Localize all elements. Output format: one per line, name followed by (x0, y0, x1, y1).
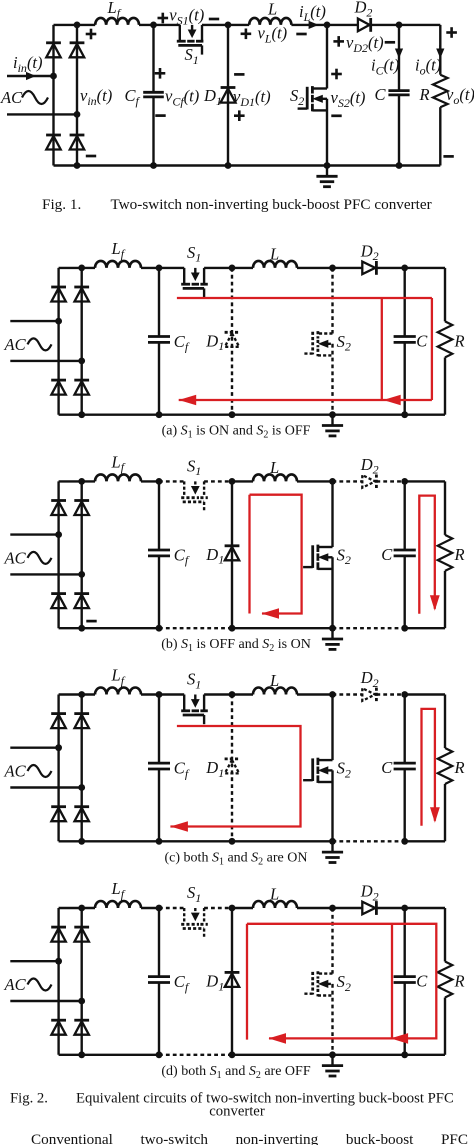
node AC upper (d) (55, 958, 62, 965)
node bridge bottom-right (b) (78, 625, 85, 632)
svg-text:D2​: D2​ (360, 455, 379, 477)
wire S2 branch upper (b) (331, 481, 333, 547)
svg-text:Two-switch non-inverting buck-: Two-switch non-inverting buck-boost PFC … (111, 196, 432, 213)
bridge diode upper-left (b) (51, 499, 66, 502)
svg-text:L: L (267, 0, 277, 19)
svg-text:Fig. 1.: Fig. 1. (42, 196, 81, 213)
wire top rail (d) D2 cathode to C node (376, 907, 404, 909)
node Cf top (150, 22, 157, 29)
node bridge bottom-right (c) (78, 838, 85, 845)
svg-text:R: R (454, 331, 465, 350)
wire S2 branch upper (d) (331, 908, 333, 974)
wire top rail (d) S2 node to D2 anode (333, 907, 363, 909)
bridge diode upper-left (a) (51, 286, 66, 289)
wire top rail (a) L to S2 node (297, 267, 333, 269)
inductor Lf (95, 18, 139, 25)
svg-text:vS2(t): vS2(t) (331, 88, 366, 110)
bridge diode upper-right (c) (74, 712, 89, 715)
transistor S2 (a) (318, 332, 333, 334)
red arrow (d) middle (391, 1033, 409, 1044)
label - vS2 (331, 114, 341, 117)
capacitor Cf (a) (158, 268, 160, 337)
red current path (c) output loop (422, 709, 435, 826)
label + vo (446, 31, 457, 34)
svg-text:AC: AC (4, 762, 27, 781)
bridge diode upper-right (a) (74, 286, 89, 289)
svg-text:iL(t): iL(t) (299, 2, 326, 24)
node S2 top (324, 22, 331, 29)
diode D1 (b) (225, 544, 240, 547)
red current path (a) vertical at C left (381, 298, 383, 400)
svg-text:(a) S1​ is ON and S2​ is OFF: (a) S1​ is ON and S2​ is OFF (162, 424, 311, 441)
svg-text:Lf​: Lf​ (111, 879, 126, 901)
node bridge bottom-right (a) (78, 411, 85, 418)
wire bottom rail (a) Cf node to D1 node (159, 414, 232, 416)
wire bottom rail (c) D1 node to S2 node (232, 840, 333, 842)
svg-text:Cf​: Cf​ (174, 332, 190, 354)
node S2 bottom (d) (329, 1051, 336, 1058)
node D1 top (225, 22, 232, 29)
AC terminal wire upper (d) (10, 960, 58, 962)
node S2 top (b) (329, 478, 336, 485)
wire bridge left leg (c) (57, 695, 59, 842)
label + vCf (155, 72, 166, 75)
wire bottom rail (b) Cf node to D1 node (159, 627, 232, 629)
node bridge top-right (c) (78, 691, 85, 698)
wire D1 branch (c) (231, 695, 233, 842)
svg-text:vD2(t): vD2(t) (346, 33, 384, 55)
label + vL (241, 32, 252, 35)
AC source symbol (d) (28, 979, 52, 991)
capacitor Cf (b) (158, 481, 160, 550)
resistor R (b) (444, 481, 446, 535)
capacitor C (d) (404, 908, 406, 977)
wire bottom rail (c) Cf node to D1 node (159, 840, 232, 842)
node C top (b) (401, 478, 408, 485)
wire top rail (b) C node to R (405, 480, 445, 482)
node bridge top-right (b) (78, 478, 85, 485)
node bridge bottom-right Fig1 (74, 162, 81, 169)
svg-text:Lf​: Lf​ (107, 0, 122, 20)
wire bottom rail (d) D1 node to S2 node (232, 1054, 333, 1056)
wire top rail (d) bridge to Cf (59, 907, 95, 909)
wire top rail (c) D1 node to L (232, 693, 253, 695)
svg-text:Cf​: Cf​ (174, 972, 190, 994)
inductor L (b) (253, 474, 297, 481)
ground (a) (331, 415, 333, 425)
wire top rail (d) Cf to S1 drain (159, 907, 184, 909)
node S2 bottom (c) (329, 838, 336, 845)
svg-text:D2​: D2​ (360, 241, 379, 263)
wire bottom rail (b) C node to R (405, 627, 445, 629)
node input upper (50, 73, 57, 80)
diode D2 (a) (362, 262, 375, 275)
wire bottom rail (a) D1 node to S2 node (232, 414, 333, 416)
svg-text:(c) both S1​ and S2​ are ON: (c) both S1​ and S2​ are ON (165, 850, 308, 867)
transistor S1 (c) (183, 695, 185, 710)
svg-text:io(t): io(t) (415, 56, 441, 78)
wire top rail (b) bridge to Cf (59, 480, 95, 482)
wire top rail (a) D1 node to L (232, 267, 253, 269)
label + vD1 (234, 114, 245, 117)
svg-text:D2​: D2​ (354, 0, 373, 19)
svg-text:S1​: S1​ (187, 456, 201, 478)
svg-text:D2​: D2​ (360, 882, 379, 904)
node D1 top (b) (229, 478, 236, 485)
node bridge top-right (a) (78, 265, 85, 272)
wire top rail (a) Cf to S1 drain (159, 267, 184, 269)
svg-text:(b) S1​ is OFF and S2​ is ON: (b) S1​ is OFF and S2​ is ON (161, 637, 311, 654)
node D1 top (d) (229, 905, 236, 912)
node C top (a) (401, 265, 408, 272)
wire top rail (a) S1 source to D1 node (204, 267, 232, 269)
node S2 bottom (b) (329, 625, 336, 632)
wire bottom rail (b) S2 node to C node (333, 627, 405, 629)
capacitor Cf (d) (158, 908, 160, 977)
label - vD1 (234, 73, 244, 76)
svg-text:R: R (454, 545, 465, 564)
node Cf top (b) (156, 478, 163, 485)
diode D1 (a) (225, 331, 240, 334)
label + vS1 (158, 17, 169, 20)
node D1 bottom (225, 162, 232, 169)
svg-text:R: R (454, 972, 465, 991)
node C bottom (c) (401, 838, 408, 845)
red arrow (a) left (179, 395, 197, 406)
AC terminal wire upper (a) (10, 320, 58, 322)
wire bottom rail (d) C node to R (405, 1054, 445, 1056)
node AC upper (a) (55, 318, 62, 325)
AC terminal wire lower (a) (10, 360, 81, 362)
wire top rail (a) S2 node to D2 anode (333, 267, 363, 269)
svg-text:S1​: S1​ (187, 243, 201, 265)
inductor Lf (b) (95, 474, 141, 481)
bridge diode lower-left (a) (51, 379, 66, 382)
bridge diode upper-right (70, 41, 85, 44)
diode D1 (c) (225, 758, 240, 761)
node AC upper (c) (55, 744, 62, 751)
AC terminal wire lower (b) (10, 573, 81, 575)
svg-text:AC: AC (4, 975, 27, 994)
svg-text:D1​: D1​ (205, 972, 224, 994)
node C top (396, 22, 403, 29)
node Cf bottom (d) (156, 1051, 163, 1058)
wire D1 branch (227, 25, 229, 166)
node S2 top (c) (329, 691, 336, 698)
AC source symbol (22, 91, 48, 104)
wire D1 branch (a) (231, 268, 233, 415)
svg-text:Cf​: Cf​ (174, 545, 190, 567)
wire top rail (b) S2 node to D2 anode (333, 480, 363, 482)
bridge diode lower-right (c) (74, 805, 89, 808)
svg-text:(d) both S1​ and S2​ are OFF: (d) both S1​ and S2​ are OFF (161, 1064, 310, 1081)
wire top rail (a) bridge to Cf (59, 267, 95, 269)
diode D2 (c) (362, 688, 375, 701)
capacitor Cf (152, 25, 154, 92)
node C bottom (b) (401, 625, 408, 632)
svg-text:R: R (454, 758, 465, 777)
svg-text:S1​: S1​ (185, 45, 199, 67)
red arrow (c) main loop (170, 821, 188, 832)
node bridge bottom-right (d) (78, 1051, 85, 1058)
wire top rail (a) D2 cathode to C node (376, 267, 404, 269)
label - vCf (155, 114, 165, 117)
wire bridge left leg Fig1 (52, 25, 54, 166)
svg-text:vCf(t): vCf(t) (165, 87, 199, 109)
wire top rail (c) S2 node to D2 anode (333, 693, 363, 695)
label - vS1 (209, 18, 219, 21)
svg-text:S2​: S2​ (337, 759, 351, 781)
wire bottom rail (a) bridge to Cf node (59, 414, 159, 416)
diode D1 (221, 86, 236, 89)
svg-text:D1​: D1​ (205, 331, 224, 353)
wire bottom rail Fig1 (54, 164, 441, 166)
node Cf top (a) (156, 265, 163, 272)
label + vD2 (333, 40, 344, 43)
node S2 top (d) (329, 905, 336, 912)
svg-text:S2​: S2​ (337, 545, 351, 567)
bridge diode lower-left (c) (51, 805, 66, 808)
red current path (b) output loop (419, 496, 435, 614)
svg-text:Equivalent circuits of two-swi: Equivalent circuits of two-switch non-in… (76, 1091, 454, 1107)
bridge diode lower-left (b) (51, 592, 66, 595)
bridge diode upper-left (c) (51, 712, 66, 715)
red arrow (b) middle loop (262, 608, 280, 619)
wire top rail (c) S1 source to D1 node (204, 693, 232, 695)
label - bridge (86, 155, 96, 158)
node D1 bottom (c) (229, 838, 236, 845)
svg-text:L: L (269, 244, 279, 263)
wire bridge right leg (a) (80, 268, 82, 415)
svg-text:vS1(t): vS1(t) (169, 6, 204, 28)
inductor L (a) (253, 261, 297, 268)
wire bridge right leg (d) (80, 908, 82, 1055)
red current path (d) outer loop (246, 924, 248, 1040)
inductor L (d) (253, 901, 297, 908)
wire top rail (d) S1 source to D1 node (204, 907, 232, 909)
inductor Lf (d) (95, 901, 141, 908)
node Cf bottom (150, 162, 157, 169)
transistor S2 (b) (318, 546, 333, 548)
current arrow iL (309, 21, 319, 29)
transistor S2 (312, 87, 327, 89)
svg-text:D2​: D2​ (360, 668, 379, 690)
red arrow (d) left (269, 1033, 287, 1044)
svg-text:L: L (269, 458, 279, 477)
node AC upper (b) (55, 531, 62, 538)
svg-text:Lf​: Lf​ (111, 452, 126, 474)
wire bottom rail (a) C node to R (405, 414, 445, 416)
diode D2 (b) (362, 475, 375, 488)
node D1 top (a) (229, 265, 236, 272)
wire top rail (a) C node to R (405, 267, 445, 269)
wire bottom rail (b) D1 node to S2 node (232, 627, 333, 629)
wire top rail (c) C node to R (405, 693, 445, 695)
wire top rail (b) L to S2 node (297, 480, 333, 482)
bridge diode lower-right (70, 134, 85, 137)
svg-text:Fig. 2.: Fig. 2. (10, 1091, 48, 1107)
wire top rail (d) D1 node to L (232, 907, 253, 909)
node Cf bottom (a) (156, 411, 163, 418)
node C bottom (396, 162, 403, 169)
AC source terminal wire lower (7, 113, 77, 115)
svg-text:AC: AC (4, 548, 27, 567)
inductor Lf (c) (95, 688, 141, 695)
node bridge top-right Fig1 (74, 22, 81, 29)
resistor R (d) (444, 908, 446, 962)
node AC lower (a) (78, 358, 85, 365)
diode D2 (358, 19, 370, 32)
AC source symbol (b) (28, 552, 52, 564)
svg-text:vL(t): vL(t) (258, 24, 288, 46)
label - vD2 (385, 41, 395, 44)
capacitor C (398, 25, 400, 91)
diode D1 (d) (225, 971, 240, 974)
wire bridge right leg (b) (80, 481, 82, 628)
wire S2 branch upper (c) (331, 695, 333, 761)
svg-text:vD1(t): vD1(t) (233, 87, 271, 109)
wire bottom rail (d) bridge to Cf node (59, 1054, 159, 1056)
node Cf top (c) (156, 691, 163, 698)
wire bottom rail (c) S2 node to C node (333, 840, 405, 842)
wire top rail (d) C node to R (405, 907, 445, 909)
node C bottom (a) (401, 411, 408, 418)
wire top rail (c) Cf to S1 drain (159, 693, 184, 695)
svg-text:converter: converter (209, 1104, 265, 1120)
wire top rail (b) D2 cathode to C node (376, 480, 404, 482)
node D1 top (c) (229, 691, 236, 698)
ground (b) (331, 628, 333, 638)
bridge diode lower-left (d) (51, 1019, 66, 1022)
inductor L (249, 18, 291, 25)
red current path (c) main loop (170, 726, 300, 827)
wire top rail (d) L to S2 node (297, 907, 333, 909)
wire bridge right leg Fig1 (76, 25, 78, 166)
svg-text:AC: AC (4, 335, 27, 354)
ground (c) (331, 841, 333, 851)
AC source symbol (c) (28, 765, 52, 777)
node C top (d) (401, 905, 408, 912)
capacitor C (c) (404, 695, 406, 764)
svg-text:S2​: S2​ (290, 86, 304, 108)
inductor L (c) (253, 688, 297, 695)
AC terminal wire upper (b) (10, 533, 58, 535)
bridge diode lower-left (46, 134, 61, 137)
bridge diode upper-right (b) (74, 499, 89, 502)
svg-text:D1​: D1​ (205, 545, 224, 567)
transistor S1 (a) (183, 268, 185, 283)
node AC lower (d) (78, 998, 85, 1005)
svg-text:iC(t): iC(t) (371, 56, 399, 78)
svg-text:S1​: S1​ (187, 670, 201, 692)
wire bottom rail (d) S2 node to C node (333, 1054, 405, 1056)
wire bridge left leg (d) (57, 908, 59, 1055)
current arrow i_in (26, 72, 36, 80)
svg-text:S1​: S1​ (187, 883, 201, 905)
node input lower (74, 111, 81, 118)
red arrow (b) output loop (430, 595, 440, 611)
svg-text:iin(t): iin(t) (13, 53, 43, 75)
AC terminal wire lower (c) (10, 786, 81, 788)
svg-text:Cf​: Cf​ (174, 759, 190, 781)
resistor R (a) (444, 268, 446, 322)
wire top rail (b) Cf to S1 drain (159, 480, 184, 482)
node D1 bottom (a) (229, 411, 236, 418)
svg-text:C: C (416, 972, 428, 991)
node Cf bottom (b) (156, 625, 163, 632)
current arrow iC (398, 45, 400, 51)
svg-text:S2​: S2​ (337, 972, 351, 994)
svg-text:D1​: D1​ (203, 86, 222, 108)
svg-text:R: R (419, 85, 430, 104)
wire top rail (b) D1 node to L (232, 480, 253, 482)
transistor S2 (c) (318, 759, 333, 761)
bridge diode lower-right (d) (74, 1019, 89, 1022)
ground Fig1 (326, 166, 328, 176)
transistor S1 (b) (183, 481, 185, 496)
red arrow (a) middle (383, 395, 401, 406)
label + bridge (86, 33, 97, 36)
svg-text:Lf​: Lf​ (111, 239, 126, 261)
red current path (a) vertical at C right (431, 298, 433, 400)
node bridge top-right (d) (78, 905, 85, 912)
node C top (c) (401, 691, 408, 698)
svg-text:C: C (416, 331, 428, 350)
node Cf bottom (c) (156, 838, 163, 845)
node AC lower (b) (78, 571, 85, 578)
node D1 bottom (b) (229, 625, 236, 632)
wire top rail (c) D2 cathode to C node (376, 693, 404, 695)
AC source symbol (a) (28, 338, 52, 350)
bridge diode upper-right (d) (74, 926, 89, 929)
bridge diode upper-left (d) (51, 926, 66, 929)
wire D1 branch (d) (231, 908, 233, 1055)
label - bridge (b) (86, 620, 96, 623)
svg-text:C: C (375, 85, 387, 104)
svg-text:vin(t): vin(t) (80, 86, 112, 108)
svg-text:Cf​: Cf​ (125, 86, 141, 108)
svg-text:D1​: D1​ (205, 758, 224, 780)
wire bottom rail (c) C node to R (405, 840, 445, 842)
red current path (a) top segment (177, 297, 432, 299)
wire top rail (c) bridge to Cf (59, 693, 95, 695)
svg-text:S2​: S2​ (337, 332, 351, 354)
node S2 bottom (a) (329, 411, 336, 418)
transistor S2 (d) (318, 972, 333, 974)
AC terminal wire upper (c) (10, 747, 58, 749)
node C bottom (d) (401, 1051, 408, 1058)
body text fragment (10, 1131, 468, 1145)
transistor S1 (d) (183, 908, 185, 923)
diode D2 (d) (362, 902, 375, 915)
svg-text:C: C (381, 758, 393, 777)
resistor R (439, 25, 441, 75)
capacitor C (a) (404, 268, 406, 337)
ground (d) (331, 1055, 333, 1065)
red arrow (c) output loop (430, 807, 440, 823)
label + vS2 (331, 73, 342, 76)
wire bottom rail (c) bridge to Cf node (59, 840, 159, 842)
inductor Lf (a) (95, 261, 141, 268)
red current path (b) middle loop (248, 495, 250, 614)
svg-text:AC: AC (0, 88, 23, 107)
node S2 bottom (324, 162, 331, 169)
wire bottom rail (a) S2 node to C node (333, 414, 405, 416)
bridge diode upper-left (46, 41, 61, 44)
AC source terminal wire upper (7, 75, 54, 77)
wire bridge left leg (a) (57, 268, 59, 415)
svg-text:Lf​: Lf​ (111, 666, 126, 688)
